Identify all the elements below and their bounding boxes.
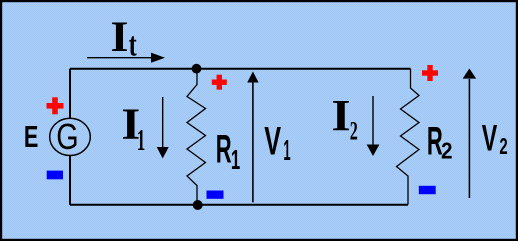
arrow V2 — [468, 79, 470, 198]
arrow V1 — [252, 82, 254, 202]
minus R1 — [207, 191, 224, 199]
svg-text:1: 1 — [137, 124, 146, 157]
svg-text:1: 1 — [231, 143, 240, 175]
wire bottom — [70, 204, 408, 206]
wire left upper — [69, 69, 71, 119]
svg-text:I: I — [111, 12, 129, 60]
svg-text:I: I — [331, 91, 350, 140]
resistor R1 — [187, 69, 206, 205]
minus of generator — [47, 171, 63, 180]
svg-text:V: V — [482, 117, 498, 159]
wire left lower — [69, 155, 71, 205]
svg-text:G: G — [56, 116, 78, 157]
svg-text:R: R — [216, 127, 232, 172]
minus R2 — [419, 186, 436, 194]
svg-text:E: E — [24, 119, 38, 154]
plus R1 — [212, 75, 227, 90]
svg-text:1: 1 — [283, 134, 290, 166]
plus of generator — [47, 97, 64, 114]
resistor R2 — [397, 69, 420, 205]
svg-text:2: 2 — [441, 137, 453, 163]
arrow It — [87, 57, 152, 59]
svg-text:2: 2 — [499, 134, 507, 160]
plus R2 — [422, 65, 438, 81]
arrow I1 — [162, 97, 164, 148]
svg-text:V: V — [264, 120, 281, 164]
node top — [192, 64, 202, 74]
wire top — [70, 68, 411, 70]
generator G circle — [50, 118, 91, 155]
arrow I2 — [372, 96, 374, 145]
svg-text:2: 2 — [350, 117, 358, 146]
node bottom — [193, 200, 203, 210]
